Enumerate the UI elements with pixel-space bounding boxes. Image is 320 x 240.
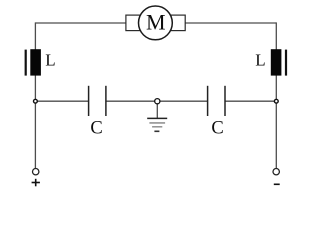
ground bar 3 xyxy=(152,126,162,128)
node junction right xyxy=(274,99,278,103)
capacitor C left: plate 1 xyxy=(88,86,90,116)
wire right vertical upper xyxy=(275,22,277,49)
node junction left xyxy=(34,99,38,103)
terminal circle positive xyxy=(33,169,39,175)
capacitor C right: plate 1 xyxy=(207,86,209,116)
component L right: filled body xyxy=(271,49,282,75)
svg-text:C: C xyxy=(90,119,102,139)
svg-text:L: L xyxy=(45,51,55,70)
minus sign xyxy=(274,183,280,185)
svg-text:M: M xyxy=(146,10,166,35)
svg-text:L: L xyxy=(255,51,265,70)
motor M body circle xyxy=(139,6,173,40)
capacitor C right: plate 2 xyxy=(224,86,226,116)
capacitor C left: plate 2 xyxy=(105,86,107,116)
component L right: side bar xyxy=(285,50,287,76)
wire left vertical lower xyxy=(34,101,36,169)
wire left vertical upper xyxy=(34,22,36,49)
ground bar 2 xyxy=(149,122,165,124)
wire middle horizontal center segment xyxy=(106,100,208,102)
wire left vertical middle xyxy=(34,75,36,101)
wire middle horizontal left segment xyxy=(35,100,88,102)
wire top-right horizontal xyxy=(185,22,277,24)
wire middle horizontal right segment xyxy=(225,100,276,102)
wire ground stub xyxy=(156,101,158,118)
svg-text:C: C xyxy=(211,119,223,139)
plus sign xyxy=(32,179,40,187)
terminal circle negative xyxy=(273,169,279,175)
ground bar 4 xyxy=(154,130,159,132)
wire right vertical middle xyxy=(275,75,277,101)
component L left: filled body xyxy=(30,49,41,75)
motor M brush right rectangle xyxy=(166,15,185,31)
motor M brush left rectangle xyxy=(126,15,145,31)
node ground junction xyxy=(155,99,160,104)
wire top-left horizontal xyxy=(35,22,126,24)
wire right vertical lower xyxy=(275,101,277,169)
component L left: side bar xyxy=(25,50,27,76)
ground bar 1 xyxy=(147,117,167,119)
